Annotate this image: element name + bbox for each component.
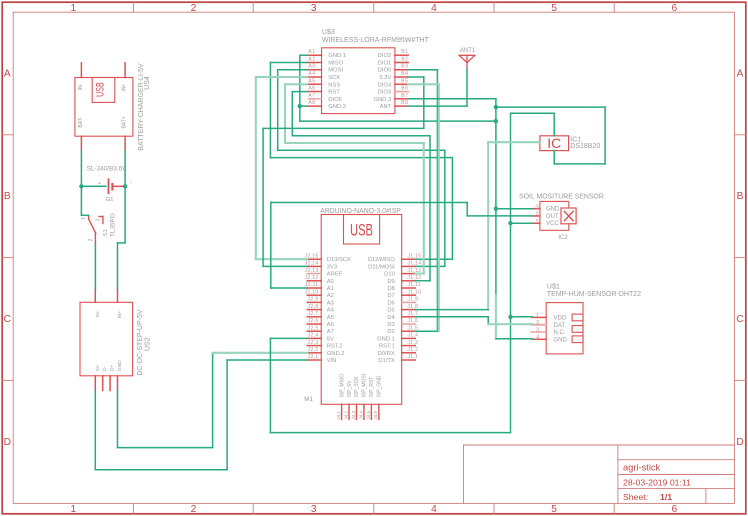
- svg-text:TEMP-HUM-SENSOR-DHT22: TEMP-HUM-SENSOR-DHT22: [547, 291, 641, 298]
- wire battery plus down to switch pin1: [81, 214, 88, 216]
- svg-text:A7: A7: [308, 93, 315, 99]
- LoRa module U$3 WIRELESS-LORA-RFM95W#THT: [307, 29, 430, 113]
- wire SCK net: [256, 76, 307, 78]
- svg-text:U$1: U$1: [547, 284, 560, 291]
- wire RST net: [415, 280, 430, 282]
- wire IC1 data: [487, 142, 489, 309]
- svg-text:ISP_RST: ISP_RST: [369, 377, 375, 398]
- wire GND loop around IC1: [554, 163, 605, 165]
- wire MOSI net: [278, 149, 445, 151]
- wire RST net: [429, 136, 431, 281]
- svg-text:Sheet:: Sheet:: [623, 492, 648, 502]
- svg-text:5: 5: [551, 504, 557, 515]
- svg-text:1: 1: [70, 3, 76, 14]
- wire MISO net: [270, 157, 452, 159]
- svg-text:D1/TX: D1/TX: [378, 358, 395, 364]
- svg-text:A6: A6: [308, 86, 315, 92]
- svg-text:US2: US2: [144, 337, 151, 351]
- wire soil sensor OUT to Arduino A1: [467, 215, 532, 217]
- wire MOSI net: [415, 265, 445, 267]
- svg-text:B6: B6: [401, 86, 408, 92]
- svg-text:GND.2: GND.2: [327, 351, 345, 357]
- wire soil sensor OUT to Arduino A1: [466, 203, 468, 216]
- svg-text:A8: A8: [308, 100, 315, 106]
- wire MOSI net: [278, 69, 307, 71]
- wire switch pin2 to DC-DC IN-: [94, 243, 96, 289]
- wire RST net: [291, 92, 293, 136]
- wire soil sensor OUT to Arduino A1: [270, 203, 272, 289]
- svg-text:ANT: ANT: [380, 104, 392, 110]
- svg-text:4: 4: [536, 335, 539, 341]
- svg-text:U$3: U$3: [322, 29, 335, 36]
- svg-text:ISP_GND: ISP_GND: [377, 375, 383, 397]
- antenna ANT1: [459, 48, 476, 69]
- svg-text:A2: A2: [308, 56, 315, 62]
- svg-text:J2,7: J2,7: [308, 311, 319, 317]
- svg-text:J2,2: J2,2: [308, 347, 319, 353]
- wire GND net A1: [300, 54, 307, 56]
- svg-text:DAT: DAT: [554, 323, 566, 329]
- svg-text:J2,4: J2,4: [308, 333, 319, 339]
- svg-text:GND: GND: [554, 337, 568, 343]
- temp-hum sensor U$1 DHT22: [531, 284, 641, 354]
- svg-text:MISO: MISO: [328, 60, 343, 66]
- wire SCK net: [255, 77, 257, 259]
- wire 3.3V net B4: [263, 127, 424, 129]
- svg-text:A2: A2: [327, 293, 334, 299]
- svg-text:AREF: AREF: [327, 272, 343, 278]
- svg-text:B: B: [4, 191, 11, 202]
- wire DHT DAT pale: [488, 323, 532, 325]
- wire GND net B7: [408, 98, 496, 100]
- svg-text:SCK: SCK: [328, 75, 340, 81]
- svg-text:2: 2: [535, 212, 538, 218]
- Arduino Nano M1 ARDUINO-NANO-3.0#ISP: [304, 208, 421, 420]
- svg-text:GND.1: GND.1: [377, 336, 395, 342]
- wire 5V to IC1 top: [511, 112, 555, 114]
- svg-text:J2,13: J2,13: [305, 268, 319, 274]
- svg-text:IC: IC: [547, 135, 561, 151]
- svg-text:ISP_MISO: ISP_MISO: [339, 374, 345, 398]
- svg-text:D6: D6: [387, 300, 394, 306]
- svg-text:DIO5: DIO5: [328, 97, 342, 103]
- svg-text:WIRELESS-LORA-RFM95W#THT: WIRELESS-LORA-RFM95W#THT: [322, 37, 430, 44]
- wire 3.3V net B4: [263, 265, 307, 267]
- svg-text:B4: B4: [401, 71, 408, 77]
- wire DC-DC 5V output to Arduino VIN: [94, 391, 96, 470]
- svg-text:ISP_5V: ISP_5V: [347, 380, 353, 398]
- wire GND loop around IC1: [553, 151, 555, 164]
- wire antenna net B8: [408, 105, 467, 107]
- svg-text:J4,5: J4,5: [366, 410, 371, 419]
- svg-text:1: 1: [535, 219, 538, 225]
- svg-text:RST.2: RST.2: [327, 344, 343, 350]
- svg-text:J2,8: J2,8: [308, 304, 319, 310]
- svg-text:SL-340/B3.6V: SL-340/B3.6V: [87, 166, 128, 173]
- junction GND IC2: [494, 207, 498, 211]
- wire GND net lower: [495, 295, 497, 339]
- svg-text:A1: A1: [327, 286, 334, 292]
- svg-text:A4: A4: [327, 308, 335, 314]
- wire 3.3V net B4: [423, 77, 425, 128]
- svg-text:2: 2: [536, 320, 539, 326]
- wire DC-DC GND down: [212, 353, 214, 448]
- svg-text:4: 4: [431, 504, 437, 515]
- svg-text:VIN: VIN: [327, 358, 337, 364]
- svg-text:3.3V: 3.3V: [379, 75, 391, 81]
- svg-text:B8: B8: [401, 100, 408, 106]
- svg-text:B1: B1: [401, 49, 408, 55]
- svg-text:D9: D9: [387, 279, 394, 285]
- wire MISO net: [415, 258, 452, 260]
- svg-text:D: D: [736, 437, 743, 448]
- svg-text:A3: A3: [308, 64, 315, 70]
- wire battery minus down to DC-DC IN+: [117, 243, 119, 289]
- svg-text:USB: USB: [95, 82, 107, 97]
- svg-text:J2,9: J2,9: [308, 297, 319, 303]
- svg-text:1: 1: [70, 504, 76, 515]
- wire charger BAT+ to battery minus: [124, 151, 126, 187]
- svg-text:DIO2: DIO2: [378, 53, 392, 59]
- wire SCK net: [256, 258, 307, 260]
- svg-text:GND.3: GND.3: [373, 97, 391, 103]
- svg-text:J1,1: J1,1: [407, 354, 418, 360]
- svg-text:J4,1: J4,1: [336, 410, 341, 419]
- svg-text:3V3: 3V3: [327, 264, 337, 270]
- wire 5V vertical spine: [510, 113, 512, 432]
- wire DC-DC GND down: [117, 391, 119, 448]
- battery charger US4: [75, 63, 151, 151]
- wire GND to DHT GND: [496, 338, 533, 340]
- wire GND loop around IC1: [604, 107, 606, 164]
- svg-text:D4: D4: [387, 315, 395, 321]
- svg-text:D7: D7: [387, 293, 394, 299]
- svg-text:OUT: OUT: [546, 214, 559, 220]
- wire D4 to DHT DAT: [487, 317, 489, 324]
- svg-text:IN+: IN+: [122, 84, 128, 92]
- svg-text:ISP_MOSI: ISP_MOSI: [362, 374, 368, 398]
- junction GND run: [494, 119, 498, 123]
- svg-text:5V: 5V: [327, 336, 334, 342]
- svg-text:D2: D2: [387, 329, 394, 335]
- svg-text:J1,6: J1,6: [407, 318, 418, 324]
- svg-text:GND.2: GND.2: [328, 104, 346, 110]
- svg-text:J4,2: J4,2: [343, 410, 348, 419]
- svg-text:J2,3: J2,3: [308, 340, 319, 346]
- svg-text:D11/MOSI: D11/MOSI: [368, 264, 395, 270]
- svg-text:TL36PO: TL36PO: [109, 213, 116, 237]
- svg-text:USB: USB: [350, 220, 373, 239]
- svg-text:2: 2: [88, 238, 94, 241]
- svg-text:D0/RX: D0/RX: [378, 351, 395, 357]
- svg-text:D10: D10: [384, 272, 395, 278]
- wire battery plus down to switch pin1: [80, 186, 82, 215]
- svg-text:J1,3: J1,3: [407, 340, 418, 346]
- svg-text:3: 3: [95, 218, 101, 221]
- wire NSS net: [423, 143, 425, 274]
- svg-text:J1,10: J1,10: [407, 289, 421, 295]
- svg-text:J2,6: J2,6: [308, 318, 319, 324]
- svg-text:G1: G1: [106, 197, 114, 203]
- title block: [464, 445, 735, 503]
- wire DIO0 net B3 to D2: [408, 69, 437, 71]
- wire DIO4 net B5: [438, 84, 440, 331]
- svg-text:A5: A5: [327, 315, 334, 321]
- svg-text:ARDUINO-NANO-3.0#ISP: ARDUINO-NANO-3.0#ISP: [320, 208, 401, 215]
- svg-text:IN-: IN-: [95, 310, 101, 317]
- svg-text:4: 4: [431, 3, 437, 14]
- svg-text:J4,4: J4,4: [358, 410, 363, 419]
- svg-text:J2,10: J2,10: [305, 289, 319, 295]
- svg-text:D8: D8: [387, 286, 394, 292]
- wire MOSI net: [444, 150, 446, 266]
- wire 5V to DHT VDD: [511, 316, 533, 318]
- svg-text:J2,5: J2,5: [308, 325, 319, 331]
- svg-text:M1: M1: [304, 396, 313, 403]
- svg-text:GND: GND: [117, 360, 123, 371]
- svg-text:A4: A4: [308, 71, 315, 77]
- svg-text:DIO0: DIO0: [378, 68, 392, 74]
- junction 5V DHT VDD: [508, 315, 512, 319]
- wire soil sensor OUT to Arduino A1: [271, 287, 308, 289]
- temperature sensor IC1 DS18B20: [540, 135, 600, 151]
- wire MISO net: [451, 158, 453, 260]
- svg-text:3: 3: [311, 504, 317, 515]
- wire GND net A8 stub link: [300, 105, 307, 107]
- wire MISO net: [270, 62, 307, 64]
- wire GND loop around IC1: [496, 106, 605, 108]
- svg-text:IN+: IN+: [117, 311, 123, 319]
- svg-text:A5: A5: [308, 78, 315, 84]
- soil moisture sensor IC2: [519, 194, 604, 242]
- svg-text:5V: 5V: [95, 364, 101, 371]
- wire 5V to IC1 top: [553, 113, 555, 136]
- wire GND to IC2 GND: [496, 208, 532, 210]
- svg-text:US4: US4: [144, 76, 151, 90]
- svg-text:DS18B20: DS18B20: [570, 143, 600, 150]
- svg-text:3: 3: [535, 204, 538, 210]
- wire IC1 data to Arduino D5: [415, 309, 488, 311]
- wire RST net: [292, 135, 430, 137]
- svg-text:A6: A6: [327, 322, 334, 328]
- svg-text:-: -: [130, 181, 132, 187]
- svg-text:C: C: [736, 314, 743, 325]
- wire DC-DC GND down: [118, 447, 213, 449]
- svg-text:D: D: [4, 437, 11, 448]
- svg-text:2: 2: [191, 3, 197, 14]
- svg-text:ANT1: ANT1: [460, 48, 476, 54]
- svg-text:MOSI: MOSI: [328, 68, 343, 74]
- wire DIO4 net B5: [408, 83, 439, 85]
- svg-text:1: 1: [536, 313, 539, 319]
- wire D4 to DHT DAT: [415, 316, 488, 318]
- wire GND net long run: [300, 120, 496, 122]
- svg-text:D-: D-: [102, 366, 108, 371]
- svg-text:VDD: VDD: [554, 316, 567, 322]
- svg-text:J1,9: J1,9: [407, 297, 418, 303]
- junction 5V IC2 VCC: [508, 221, 512, 225]
- wire battery minus down to DC-DC IN+: [124, 186, 126, 243]
- wire DIO0 net B3 to D2: [436, 70, 438, 332]
- DC-DC step-up converter US2: [80, 289, 151, 390]
- svg-text:1: 1: [81, 217, 87, 220]
- svg-text:S1: S1: [103, 229, 109, 236]
- svg-text:J2,12: J2,12: [305, 275, 319, 281]
- svg-text:IN-: IN-: [78, 83, 84, 90]
- wire MISO net: [269, 63, 271, 158]
- svg-text:A3: A3: [327, 300, 334, 306]
- svg-text:2: 2: [191, 504, 197, 515]
- svg-text:D12/MISO: D12/MISO: [368, 257, 396, 263]
- svg-text:N.C.: N.C.: [554, 330, 566, 336]
- svg-text:VCC: VCC: [546, 221, 559, 227]
- wire DC-DC 5V output to Arduino VIN: [227, 359, 307, 361]
- svg-text:D13/SCK: D13/SCK: [327, 257, 351, 263]
- junction A8 GND: [298, 104, 302, 108]
- wire 3.3V net B4: [262, 128, 264, 266]
- svg-text:J1,2: J1,2: [407, 347, 418, 353]
- svg-text:D5: D5: [387, 308, 394, 314]
- wire antenna net B8: [466, 69, 468, 106]
- svg-text:D+: D+: [110, 365, 116, 371]
- svg-text:A: A: [737, 69, 744, 80]
- svg-text:NSS: NSS: [328, 82, 340, 88]
- wire NSS net: [415, 273, 424, 275]
- wire NSS net: [285, 142, 424, 144]
- wire 5V to Arduino 5V pin: [270, 432, 510, 434]
- svg-text:3: 3: [536, 327, 539, 333]
- wire NSS net: [285, 83, 307, 85]
- svg-text:J1,4: J1,4: [407, 333, 418, 339]
- wire MOSI net: [277, 70, 279, 151]
- svg-text:GND: GND: [546, 207, 560, 213]
- svg-text:6: 6: [671, 504, 677, 515]
- wire NSS net: [284, 84, 286, 143]
- svg-text:GND.1: GND.1: [328, 53, 346, 59]
- svg-text:BAT+: BAT+: [122, 116, 128, 128]
- svg-text:B2: B2: [401, 56, 408, 62]
- svg-text:BATTERY-CHARGER-LI-5V: BATTERY-CHARGER-LI-5V: [138, 63, 145, 151]
- svg-text:ISP_SCK: ISP_SCK: [354, 376, 360, 398]
- svg-text:6: 6: [671, 3, 677, 14]
- wire DC-DC 5V output to Arduino VIN: [226, 360, 228, 470]
- junction GND at IC1 loop: [494, 105, 498, 109]
- wire DC-DC 5V output to Arduino VIN: [95, 469, 227, 471]
- wire battery minus down to DC-DC IN+: [118, 242, 126, 244]
- svg-text:BAT-: BAT-: [78, 116, 84, 127]
- svg-text:5: 5: [551, 3, 557, 14]
- wire GND net A1: [299, 55, 301, 121]
- wire RST net: [292, 91, 307, 93]
- svg-text:agri-stick: agri-stick: [623, 462, 661, 472]
- svg-text:DC-DC-STEP-UP-5V: DC-DC-STEP-UP-5V: [137, 309, 144, 375]
- svg-text:A7: A7: [327, 329, 334, 335]
- svg-text:J2,1: J2,1: [308, 354, 319, 360]
- svg-text:DIO3: DIO3: [378, 90, 392, 96]
- battery G1 SL-340/B3.6V: [87, 166, 133, 203]
- svg-text:A0: A0: [327, 279, 334, 285]
- svg-text:B3: B3: [401, 64, 408, 70]
- wire 5V to Arduino 5V pin: [269, 338, 271, 432]
- svg-text:A1: A1: [308, 49, 315, 55]
- svg-text:B7: B7: [401, 93, 408, 99]
- svg-text:RST: RST: [328, 90, 340, 96]
- svg-text:DIO1: DIO1: [378, 60, 392, 66]
- svg-text:J1,11: J1,11: [407, 282, 421, 288]
- svg-text:B: B: [737, 191, 744, 202]
- wire DIO0 net B3 to D2: [415, 330, 437, 332]
- svg-text:DIO4: DIO4: [378, 82, 392, 88]
- wire IC1 data: [488, 141, 540, 143]
- switch S1 TL36PO: [81, 213, 116, 243]
- svg-text:RST.1: RST.1: [379, 344, 395, 350]
- svg-text:3: 3: [311, 3, 317, 14]
- junction battery plus: [79, 184, 83, 188]
- wire BAT- pin of charger to battery plus: [80, 151, 82, 187]
- wire 3.3V net B4: [408, 76, 424, 78]
- wire battery plus lead: [81, 185, 106, 187]
- junction battery minus: [123, 184, 127, 188]
- svg-text:1/1: 1/1: [660, 492, 672, 502]
- svg-text:SOIL MOSITURE SENSOR: SOIL MOSITURE SENSOR: [519, 194, 604, 201]
- svg-text:J4,3: J4,3: [351, 410, 356, 419]
- wire 5V to Arduino 5V pin: [270, 337, 307, 339]
- svg-text:IC2: IC2: [558, 235, 568, 241]
- wire soil sensor OUT to Arduino A1: [271, 202, 467, 204]
- wire GND net B7: [495, 99, 497, 295]
- wire 5V to IC2 VCC: [511, 222, 532, 224]
- svg-text:D3: D3: [387, 322, 394, 328]
- svg-text:C: C: [4, 314, 11, 325]
- svg-text:28-03-2019 01:11: 28-03-2019 01:11: [623, 477, 691, 487]
- wire GND to Arduino GND.2: [213, 352, 308, 354]
- svg-text:J4,6: J4,6: [373, 410, 378, 419]
- svg-text:A: A: [4, 69, 11, 80]
